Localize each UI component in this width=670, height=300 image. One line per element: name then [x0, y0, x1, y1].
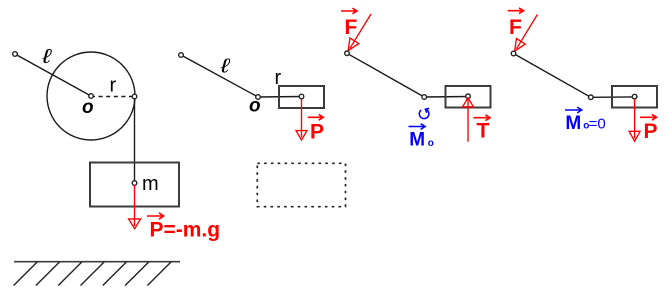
- svg-text:T: T: [477, 119, 490, 142]
- svg-text:r: r: [110, 75, 117, 97]
- svg-text:P=-m.g: P=-m.g: [150, 218, 221, 241]
- svg-text:M: M: [409, 130, 425, 151]
- svg-text:r: r: [275, 67, 282, 89]
- svg-text:o: o: [428, 138, 434, 149]
- svg-text:F: F: [509, 16, 522, 39]
- svg-text:m: m: [142, 173, 159, 195]
- svg-text:=0: =0: [589, 116, 606, 133]
- svg-text:o: o: [82, 97, 94, 118]
- svg-text:M: M: [565, 113, 581, 134]
- svg-text:ℓ: ℓ: [219, 55, 230, 78]
- svg-text:ℓ: ℓ: [41, 45, 52, 68]
- svg-text:o: o: [249, 96, 261, 117]
- svg-text:P: P: [644, 120, 658, 143]
- svg-text:P: P: [310, 120, 324, 143]
- svg-text:F: F: [345, 16, 358, 39]
